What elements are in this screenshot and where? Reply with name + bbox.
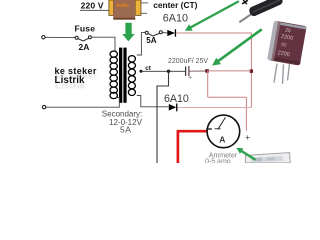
capacitor C1 symbol	[186, 66, 206, 76]
thick red wire to ammeter	[178, 131, 207, 163]
capacitor photo right	[267, 21, 306, 66]
svg-text:2200uF/ 25V: 2200uF/ 25V	[168, 58, 208, 65]
wire ct branch down	[157, 71, 169, 163]
red top rail	[176, 32, 252, 34]
red vert from left dot	[207, 71, 209, 97]
wire bottom terminal to primary	[46, 98, 119, 108]
ammeter M1	[207, 115, 240, 148]
svg-text:center (CT): center (CT)	[153, 0, 197, 10]
fuse 2A symbol	[75, 36, 91, 41]
red vert to ammeter plus	[245, 97, 247, 130]
junction dot ct branch	[167, 70, 170, 73]
wire trafo right lower stub	[141, 12, 147, 14]
core bars	[119, 48, 122, 103]
svg-text:+: +	[245, 133, 250, 142]
wire secondary top to 5A fuse	[137, 33, 145, 55]
svg-text:0-5 amp: 0-5 amp	[205, 158, 231, 163]
terminal top left	[42, 36, 45, 39]
red right edge	[250, 33, 252, 108]
capacitor photo leads	[274, 64, 290, 85]
wire ct to cap	[141, 70, 185, 72]
svg-text:Listrik: Listrik	[55, 75, 86, 86]
wire trafo to center (CT)	[141, 2, 148, 4]
svg-text:ct: ct	[145, 65, 152, 72]
svg-text:5A: 5A	[146, 36, 156, 45]
svg-text:+: +	[188, 75, 192, 82]
wire 5A to diode	[162, 32, 167, 34]
primary coil	[110, 51, 117, 99]
terminal bottom left	[42, 105, 45, 108]
minus terminal	[206, 128, 212, 129]
svg-text:220 V: 220 V	[81, 0, 104, 10]
svg-text:2A: 2A	[79, 42, 90, 52]
diode photo top right	[239, 0, 284, 22]
wire terminal to fuse	[45, 36, 75, 38]
svg-text:Fuse: Fuse	[75, 23, 96, 33]
lead X mark top edge	[242, 0, 248, 4]
svg-text:5A: 5A	[120, 125, 131, 135]
red bottom rail	[207, 70, 251, 72]
meter photo bottom right	[245, 153, 290, 163]
diode D2 bottom	[169, 104, 178, 112]
red horizontal mid	[208, 96, 247, 98]
diode D1 top	[167, 29, 176, 37]
pink wire diode row	[178, 107, 252, 109]
secondary coil	[128, 56, 135, 96]
green arrow to top diode	[185, 1, 239, 31]
junction dot cap left	[205, 69, 209, 73]
wire fuse to primary	[92, 37, 116, 51]
green arrow to ammeter	[236, 148, 255, 160]
svg-text:trafo: trafo	[116, 3, 129, 9]
wire secondary bottom to diode	[137, 96, 169, 107]
green arrow to cap junction	[212, 29, 262, 65]
transformer photo icon (trafo box)	[109, 0, 141, 20]
svg-text:6A10: 6A10	[164, 93, 189, 105]
junction dot cap right	[250, 69, 253, 72]
ct tap dot	[140, 70, 143, 73]
big green arrow at transformer	[122, 23, 135, 42]
fuse 5A symbol	[145, 31, 162, 36]
lead X mark 2	[243, 0, 247, 4]
svg-text:6A10: 6A10	[163, 13, 188, 25]
svg-text:A: A	[219, 135, 225, 145]
wire 220V to trafo box	[80, 9, 109, 11]
